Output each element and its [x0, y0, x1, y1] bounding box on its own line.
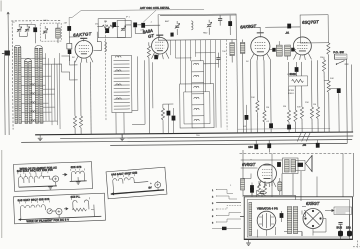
capacitor C22 above box: [250, 188, 254, 193]
svg-text:6AK7GT: 6AK7GT: [73, 31, 92, 37]
detector box: [300, 15, 328, 43]
wire: [74, 128, 76, 134]
resistor R15: [263, 184, 266, 196]
wire dashed tuner boundary right: [104, 21, 107, 121]
trimmer TC5: [175, 23, 180, 28]
svg-text:3M: 3M: [283, 106, 286, 108]
wire: [229, 16, 231, 35]
svg-text:2M: 2M: [104, 21, 107, 23]
wire V5 plate drops: [259, 171, 301, 201]
capacitor C32 electrolytic: [278, 178, 282, 195]
capacitor C30 small: [170, 33, 173, 37]
svg-text:6V: 6V: [148, 185, 152, 189]
resistor R16: [327, 81, 330, 93]
svg-text:.05: .05: [243, 126, 247, 128]
resistor R8: [287, 110, 290, 122]
wire: [135, 25, 160, 33]
wire right feeders: [346, 59, 352, 144]
svg-text:.01: .01: [266, 121, 270, 123]
wire: [241, 39, 244, 132]
wire: [167, 104, 169, 133]
power transformer T3: [287, 207, 297, 234]
fuse F3: [346, 215, 352, 240]
wire top B+ bus: [160, 14, 236, 17]
wire: [334, 54, 346, 59]
speaker field blob: [296, 161, 306, 171]
wire: [317, 119, 319, 132]
capacitor C29 cathode: [154, 55, 158, 60]
trimmer TC2: [25, 27, 30, 32]
capacitor C8: [218, 19, 222, 21]
svg-text:3: 3: [212, 203, 214, 205]
wire: [324, 55, 329, 133]
capacitor C5: [112, 22, 116, 27]
wire grid return: [89, 62, 92, 134]
capacitor C2 electrolytic: [56, 28, 61, 38]
svg-text:SPKR: SPKR: [288, 90, 294, 92]
antenna terminal A1: [2, 17, 11, 135]
resistor R6: [263, 110, 266, 122]
capacitor C6: [133, 22, 137, 27]
page edge corner mark: [1, 1, 2, 12]
wire: [208, 20, 210, 35]
wire bottom bus drop: [295, 195, 297, 199]
capacitor C13: [295, 67, 299, 72]
capacitor C12: [269, 123, 273, 128]
wire: [295, 122, 297, 132]
svg-text:20K: 20K: [251, 97, 255, 99]
svg-text:5K: 5K: [246, 61, 249, 63]
svg-text:VIBRATOR 4 PR: VIBRATOR 4 PR: [257, 206, 278, 210]
wire link down right: [353, 153, 355, 197]
wire V2 pin drops: [137, 56, 153, 124]
svg-text:50K: 50K: [297, 107, 301, 109]
capacitor C16 below bus: [267, 143, 271, 148]
svg-text:1M: 1M: [266, 107, 269, 109]
svg-text:VOL: VOL: [287, 74, 292, 76]
wire: [176, 21, 178, 35]
coil L6 padder: [230, 43, 235, 56]
node pin dots: [215, 190, 217, 223]
wire: [264, 122, 266, 132]
filament box A: [14, 162, 93, 192]
wire: [251, 183, 253, 196]
svg-text:25: 25: [12, 22, 15, 24]
tuning coil L1: [14, 45, 21, 123]
capacitor C31: [287, 125, 291, 130]
wire B+ dashed link: [240, 152, 354, 154]
capacitor C3 grid: [67, 26, 71, 31]
wire: [270, 128, 272, 132]
wire: [288, 122, 290, 132]
wire: [295, 62, 297, 76]
coil L4: [191, 21, 193, 30]
resistor R12: [316, 107, 319, 119]
capacitor C7: [141, 23, 145, 28]
capacitor C21: [280, 213, 284, 218]
capacitor C20 dark: [250, 185, 254, 190]
wire: [34, 24, 36, 43]
svg-text:BUS: BUS: [337, 226, 343, 230]
wire bus 4: [110, 143, 347, 145]
node cable hatch marks on buses: [297, 133, 310, 142]
wire left leg: [242, 150, 244, 197]
wire V3 cathode drops: [250, 60, 271, 133]
svg-text:1M: 1M: [313, 104, 316, 106]
svg-text:2: 2: [212, 197, 214, 199]
resistor R17: [161, 108, 164, 120]
capacitor C25: [245, 115, 249, 120]
wire: [256, 112, 258, 132]
wire vibrator links: [258, 207, 327, 238]
wire: [80, 128, 82, 134]
capacitor C10 pair: [216, 58, 220, 60]
resistor R18: [327, 43, 330, 55]
oscillator shield box inner: [184, 92, 210, 124]
tube V5 6V6GT: [258, 164, 277, 187]
node left entry: [240, 216, 244, 218]
wire: [57, 23, 59, 43]
wire V4 drops: [288, 57, 324, 110]
node switch dots: [336, 63, 337, 64]
coil L9: [304, 211, 306, 217]
tube V3 6AK6GT: [250, 33, 270, 61]
capacitor C11: [287, 24, 291, 29]
svg-text:6AK6GT: 6AK6GT: [240, 23, 257, 29]
node ground tap: [39, 135, 41, 138]
wire: [97, 32, 101, 51]
wire bus 3: [21, 139, 352, 142]
wire stage top: [241, 160, 283, 168]
svg-text:FIELD: FIELD: [288, 93, 295, 95]
switch SW1: [336, 61, 348, 65]
coil L7: [240, 42, 245, 53]
wire leader: [69, 17, 72, 26]
resistor R5: [256, 100, 259, 112]
tuning coil L2b: [35, 45, 43, 123]
fuse F2: [337, 223, 344, 240]
node ground arrow: [121, 134, 123, 138]
svg-text:4: 4: [212, 210, 214, 212]
speaker SP1: [306, 155, 313, 172]
fuse lead: [212, 228, 241, 230]
svg-text:ANT OSC COIL DETAIL: ANT OSC COIL DETAIL: [140, 6, 170, 10]
svg-text:6A8 6AK7 6SQ7 6X5 6V6: 6A8 6AK7 6SQ7 6X5 6V6: [18, 197, 50, 202]
capacitor C28 grid component: [67, 37, 72, 61]
tuning coil L2: [24, 59, 32, 124]
svg-text:6X5 6V6: 6X5 6V6: [71, 165, 82, 169]
wire: [323, 72, 325, 81]
antenna rod bar: [249, 203, 252, 236]
svg-text:180: 180: [248, 145, 253, 149]
wire grid staircase: [51, 56, 77, 80]
wire V3 topcap lead: [250, 27, 260, 33]
trimmer TC1: [17, 27, 22, 32]
capacitor C1: [33, 27, 37, 32]
svg-text:6X5GT: 6X5GT: [306, 201, 320, 206]
oscillator trap dashed box: [40, 23, 61, 41]
capacitor C27: [172, 116, 176, 121]
chassis box inner: [247, 200, 349, 237]
resistor R7 volume in box: [292, 79, 304, 82]
svg-text:5: 5: [212, 216, 214, 218]
wire: [264, 194, 266, 197]
resistor R2: [73, 116, 76, 128]
trimmer TC6: [207, 22, 212, 27]
tube V7 6X5GT socket: [303, 209, 323, 229]
wire: [19, 24, 27, 36]
resistor R1: [102, 25, 114, 28]
wire dashed agc: [225, 40, 228, 130]
capacitor C26: [167, 111, 171, 116]
svg-text:6V6GT: 6V6GT: [242, 162, 256, 167]
capacitor C14: [337, 88, 341, 93]
wire: [69, 31, 79, 37]
wire: [245, 105, 247, 133]
box screen section: [117, 20, 131, 37]
wire plate V1: [93, 50, 101, 52]
wire: [281, 211, 283, 222]
wire detector box right leg: [327, 41, 329, 44]
wire: [268, 140, 270, 152]
resistor R9: [294, 110, 297, 122]
svg-text:25K: 25K: [305, 102, 309, 104]
wire oscillator comb: [170, 40, 221, 128]
svg-text:6SQ7GT: 6SQ7GT: [302, 19, 319, 25]
capacitor C18 below bus: [316, 143, 320, 148]
tube V2 6A8GT: [151, 35, 169, 59]
resistor R10: [300, 107, 303, 119]
filament box B: [13, 193, 105, 224]
value labels: [12, 17, 334, 188]
wire stage bottom bus: [243, 194, 296, 196]
resistor R11: [310, 107, 313, 119]
svg-text:.1M: .1M: [63, 23, 67, 25]
wire: [231, 40, 233, 63]
wire note underline: [81, 9, 204, 10]
svg-text:15A: 15A: [346, 226, 351, 230]
wire IF can returns: [116, 112, 124, 134]
wire: [163, 104, 174, 134]
svg-text:2M: 2M: [320, 57, 323, 59]
svg-text:50K: 50K: [330, 78, 334, 80]
svg-text:PAD: PAD: [203, 32, 208, 35]
oscillator tap ladder L5: [191, 61, 204, 128]
oscillator shield box outer: [180, 84, 214, 128]
IF transformer T1 stack: [111, 55, 131, 112]
wire: [97, 26, 119, 28]
wire: [301, 119, 303, 132]
terminal info box: [325, 207, 352, 215]
svg-text:ANT: ANT: [165, 20, 170, 23]
capacitor C4: [105, 28, 109, 33]
wire: [261, 189, 263, 196]
wire: [132, 110, 145, 124]
wire: [125, 24, 141, 26]
wire dashed tuner boundary top: [11, 20, 61, 22]
capacitor C23 above box: [260, 192, 264, 194]
fuse F1 bead: [222, 227, 227, 230]
wire: [148, 42, 151, 133]
IF transformer T5: [270, 41, 296, 60]
svg-text:IF 1: IF 1: [126, 17, 131, 19]
wire: [162, 104, 164, 133]
wire: [324, 81, 339, 133]
svg-text:3K: 3K: [72, 57, 75, 59]
wire: [219, 15, 221, 25]
svg-text:TEL: TEL: [196, 135, 201, 137]
svg-text:700: 700: [222, 51, 226, 53]
page edge streak left: [1, 150, 2, 238]
capacitor C9: [228, 21, 232, 26]
box R7: [289, 76, 308, 86]
svg-text:1: 1: [212, 190, 214, 192]
svg-text:.05: .05: [302, 143, 306, 147]
tube V1 6AK7GT: [75, 38, 93, 63]
output transformer T2: [283, 158, 299, 174]
wire: [255, 140, 257, 144]
wire bus 2: [60, 136, 353, 139]
svg-text:250: 250: [95, 24, 99, 26]
chassis box outer: [244, 197, 352, 240]
coil L8 filter: [241, 179, 245, 191]
svg-text:GT: GT: [148, 33, 155, 39]
tube V4 6SQ7GT: [293, 37, 311, 60]
wire dashed tuner boundary left: [11, 23, 14, 129]
tone control box: [334, 54, 347, 59]
svg-text:1: 1: [230, 185, 232, 187]
wire: [243, 159, 259, 196]
svg-text:6X5 P.L: 6X5 P.L: [70, 194, 80, 198]
svg-text:.1: .1: [150, 22, 153, 24]
vibrator V6: [257, 211, 276, 230]
resistor R14: [257, 184, 260, 196]
node bottom junction caps: [302, 219, 307, 237]
resistor R3: [79, 116, 82, 128]
IF can T1 box: [98, 18, 125, 37]
wire: [44, 26, 46, 39]
wire: [252, 190, 257, 197]
wire box bottom emphasis: [244, 238, 352, 240]
svg-text:6: 6: [212, 223, 214, 225]
wire: [203, 53, 218, 68]
resistor R4: [147, 46, 150, 58]
wire: [19, 24, 35, 36]
wire plate line to detector: [265, 26, 300, 28]
wire feeders into box: [272, 153, 343, 197]
svg-text:.01: .01: [285, 31, 289, 35]
filament box C: [106, 167, 167, 199]
wire V1 cathode drops: [74, 61, 80, 116]
wire note leader: [72, 10, 156, 23]
trimmer TC4: [121, 26, 126, 31]
oscillator coil box: [158, 14, 236, 40]
wire ground bus main: [35, 132, 353, 135]
resistor R13: [322, 60, 325, 72]
capacitor C15 below bus: [254, 144, 258, 149]
capacitor C19: [277, 162, 281, 167]
trimmer TC3: [43, 29, 48, 34]
wire: [311, 119, 313, 132]
antenna arrow: [7, 12, 9, 18]
svg-text:OSC: OSC: [43, 20, 48, 22]
wire band switch comb left: [21, 53, 60, 129]
svg-text:P.O. SW: P.O. SW: [333, 50, 344, 54]
coil L3 rf choke: [104, 42, 106, 52]
wire osc return: [236, 40, 239, 133]
ground below box: [248, 240, 250, 243]
wire avc line: [238, 127, 330, 130]
page corner dashes: [353, 241, 360, 248]
wire: [317, 140, 319, 143]
